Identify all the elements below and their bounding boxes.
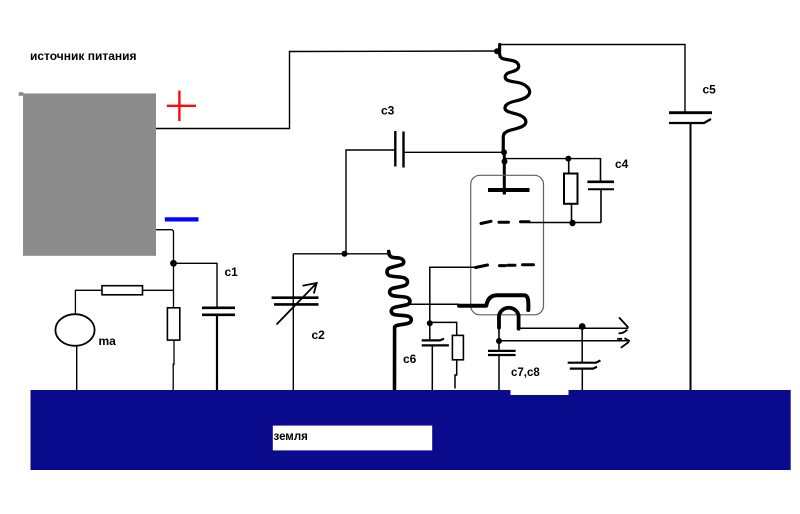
wire: output 2 (from cathode node) with arrow <box>499 338 630 348</box>
node: c7 junction <box>496 338 502 344</box>
capacitor C1 <box>202 308 235 395</box>
svg-text:c5: c5 <box>703 83 717 97</box>
plus terminal symbol <box>167 91 196 121</box>
svg-text:c7,c8: c7,c8 <box>511 367 540 379</box>
variable capacitor C2 <box>272 283 319 325</box>
tube U1 grid 1 (dashed) <box>481 221 529 223</box>
capacitor (grid2 bypass) <box>422 323 449 391</box>
wire: grid1 to c4 bottom <box>529 222 601 224</box>
node C (minus rail junction) <box>170 260 177 267</box>
capacitor C5 <box>669 113 712 390</box>
wire: grid2 out left and down <box>430 267 476 323</box>
capacitor C4 <box>587 158 614 223</box>
node: grid2 RC junction <box>427 320 433 326</box>
minus terminal symbol <box>165 217 199 221</box>
tube U1 cathode lead thick <box>459 295 528 310</box>
node: anode junction lower <box>502 159 508 165</box>
node: c8 junction <box>579 323 586 330</box>
wire: c2 left branch down to ground <box>292 254 294 390</box>
capacitor C7 <box>488 341 516 390</box>
svg-text:c4: c4 <box>615 157 629 171</box>
wire: top rail to c5 <box>500 45 686 113</box>
svg-text:c2: c2 <box>312 328 326 342</box>
wire: anode lead into tube <box>503 152 506 194</box>
tube U1 envelope <box>471 175 544 314</box>
node B (tank top junction) <box>342 251 348 257</box>
resistor R4 (horizontal, to meter) <box>75 286 173 315</box>
resistor R2 (grid2) <box>452 335 463 388</box>
wire: + output of supply to node A <box>156 51 496 129</box>
svg-text:ma: ma <box>99 334 117 348</box>
wire: cathode tap from coil <box>408 303 459 305</box>
power supply box <box>19 92 156 256</box>
wire: - output of supply down to node C <box>156 230 174 264</box>
svg-text:c6: c6 <box>403 352 417 366</box>
inductor L2 (tank coil) <box>387 252 411 390</box>
ground label box <box>273 426 432 451</box>
node: c4 top junction <box>565 156 571 162</box>
tube U1 grid 2 (dashed) <box>476 265 534 268</box>
capacitor C8 <box>568 326 601 390</box>
svg-text:земля: земля <box>274 431 308 443</box>
capacitor C3 plates <box>395 131 403 168</box>
svg-text:источник питания: источник питания <box>30 49 137 63</box>
resistor R1 (grid leak, in c4 network) <box>564 159 578 223</box>
wire: anode node to c4 network <box>505 158 601 160</box>
node A (top junction at coil L1) <box>494 48 500 54</box>
svg-text:c1: c1 <box>225 265 239 279</box>
wire: c3 left plate to grid tank node <box>346 150 395 254</box>
tube U1 heater arc <box>499 308 519 329</box>
meter MA (milliammeter) <box>55 314 94 346</box>
node: anode junction upper <box>501 149 507 155</box>
wire: tank top rail <box>293 253 389 255</box>
wire: node C to c1 <box>174 263 218 308</box>
node: c4 bottom junction <box>569 220 575 226</box>
wire: c3 right plate to anode node <box>404 151 505 153</box>
ground bus bar (земля) <box>31 390 791 470</box>
svg-text:c3: c3 <box>381 104 395 118</box>
resistor R3 (vertical, minus rail) <box>167 263 179 390</box>
wire: junction to resistor R2 <box>430 322 457 335</box>
wire: meter to ground <box>76 346 78 390</box>
inductor L1 (anode coil) <box>500 45 530 153</box>
tube U1 anode plate <box>488 188 530 192</box>
wire: output 1 (from heater right leg) with arrow <box>518 317 628 333</box>
